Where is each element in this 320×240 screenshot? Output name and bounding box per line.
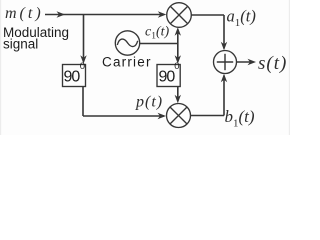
- phase shifter box left (90 deg): [63, 65, 86, 87]
- arrowhead into multiplier1 left: [158, 11, 167, 17]
- multiplier M2 (bottom mixer): [167, 104, 191, 128]
- arrowhead up into multiplier1 bottom: [175, 27, 181, 36]
- svg-text:Carrier: Carrier: [102, 55, 152, 70]
- phase shifter box right (90 deg): [157, 65, 180, 87]
- left scan edge: [0, 0, 1, 135]
- svg-text:s(t): s(t): [258, 53, 287, 74]
- svg-text:signal: signal: [3, 37, 38, 52]
- arrowhead into multiplier2 left: [158, 113, 167, 119]
- arrowhead into multiplier2 top: [175, 95, 181, 104]
- wire carrier vertical up to multiplier1 and down to right 90 box: [177, 30, 179, 62]
- wire right 90 box to multiplier2: [177, 87, 179, 102]
- wire adder output: [237, 61, 254, 63]
- arrowhead into left 90 box: [80, 55, 86, 64]
- svg-text:m(t): m(t): [5, 5, 44, 22]
- wire carrier horizontal: [140, 43, 178, 45]
- arrowhead into adder top: [221, 42, 227, 51]
- wire multiplier2 output horizontal: [191, 115, 225, 117]
- right scan edge: [289, 0, 290, 135]
- wire down to adder: [223, 15, 225, 49]
- wire bottom horizontal to multiplier2: [83, 115, 164, 117]
- arrowhead into right 90 box: [175, 55, 181, 64]
- adder: [214, 51, 237, 74]
- svg-text:0: 0: [80, 61, 85, 72]
- wire m(t) top horizontal: [45, 14, 164, 16]
- wire up to adder bottom: [223, 76, 225, 116]
- svg-text:90: 90: [64, 69, 81, 86]
- svg-text:p(t): p(t): [135, 94, 163, 111]
- svg-text:0: 0: [174, 61, 179, 72]
- multiplier M1 (top mixer): [167, 3, 192, 28]
- svg-text:c1(t): c1(t): [145, 25, 170, 42]
- wire branch vertical to left 90 box: [83, 15, 85, 62]
- arrowhead into adder bottom: [221, 74, 227, 83]
- wire left 90 box down: [82, 87, 84, 117]
- arrowhead m(t) mid: [57, 11, 66, 17]
- arrowhead s(t) output: [248, 59, 257, 65]
- wire multiplier1 output horizontal: [191, 14, 224, 16]
- svg-text:90: 90: [159, 69, 176, 86]
- oscillator (carrier source): [115, 31, 139, 55]
